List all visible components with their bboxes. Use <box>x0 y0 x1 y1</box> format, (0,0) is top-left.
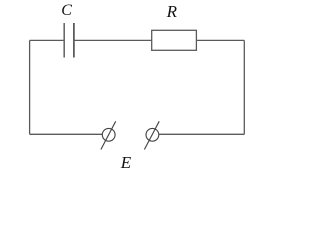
svg-text:R: R <box>166 2 178 21</box>
battery E left terminal <box>101 121 116 149</box>
capacitor C <box>64 23 74 58</box>
svg-text:C: C <box>61 2 72 19</box>
wire: top-left segment to capacitor <box>30 39 64 41</box>
svg-text:E: E <box>120 153 132 172</box>
resistor R <box>152 30 197 50</box>
battery E right terminal <box>144 121 159 149</box>
wire: right vertical side <box>243 40 245 134</box>
wire: capacitor to resistor <box>75 39 152 41</box>
wire: left vertical side <box>29 40 31 134</box>
wire: bottom-right segment <box>159 133 245 135</box>
wire: resistor to top-right corner <box>196 39 244 41</box>
wire: bottom-left segment <box>30 133 103 135</box>
